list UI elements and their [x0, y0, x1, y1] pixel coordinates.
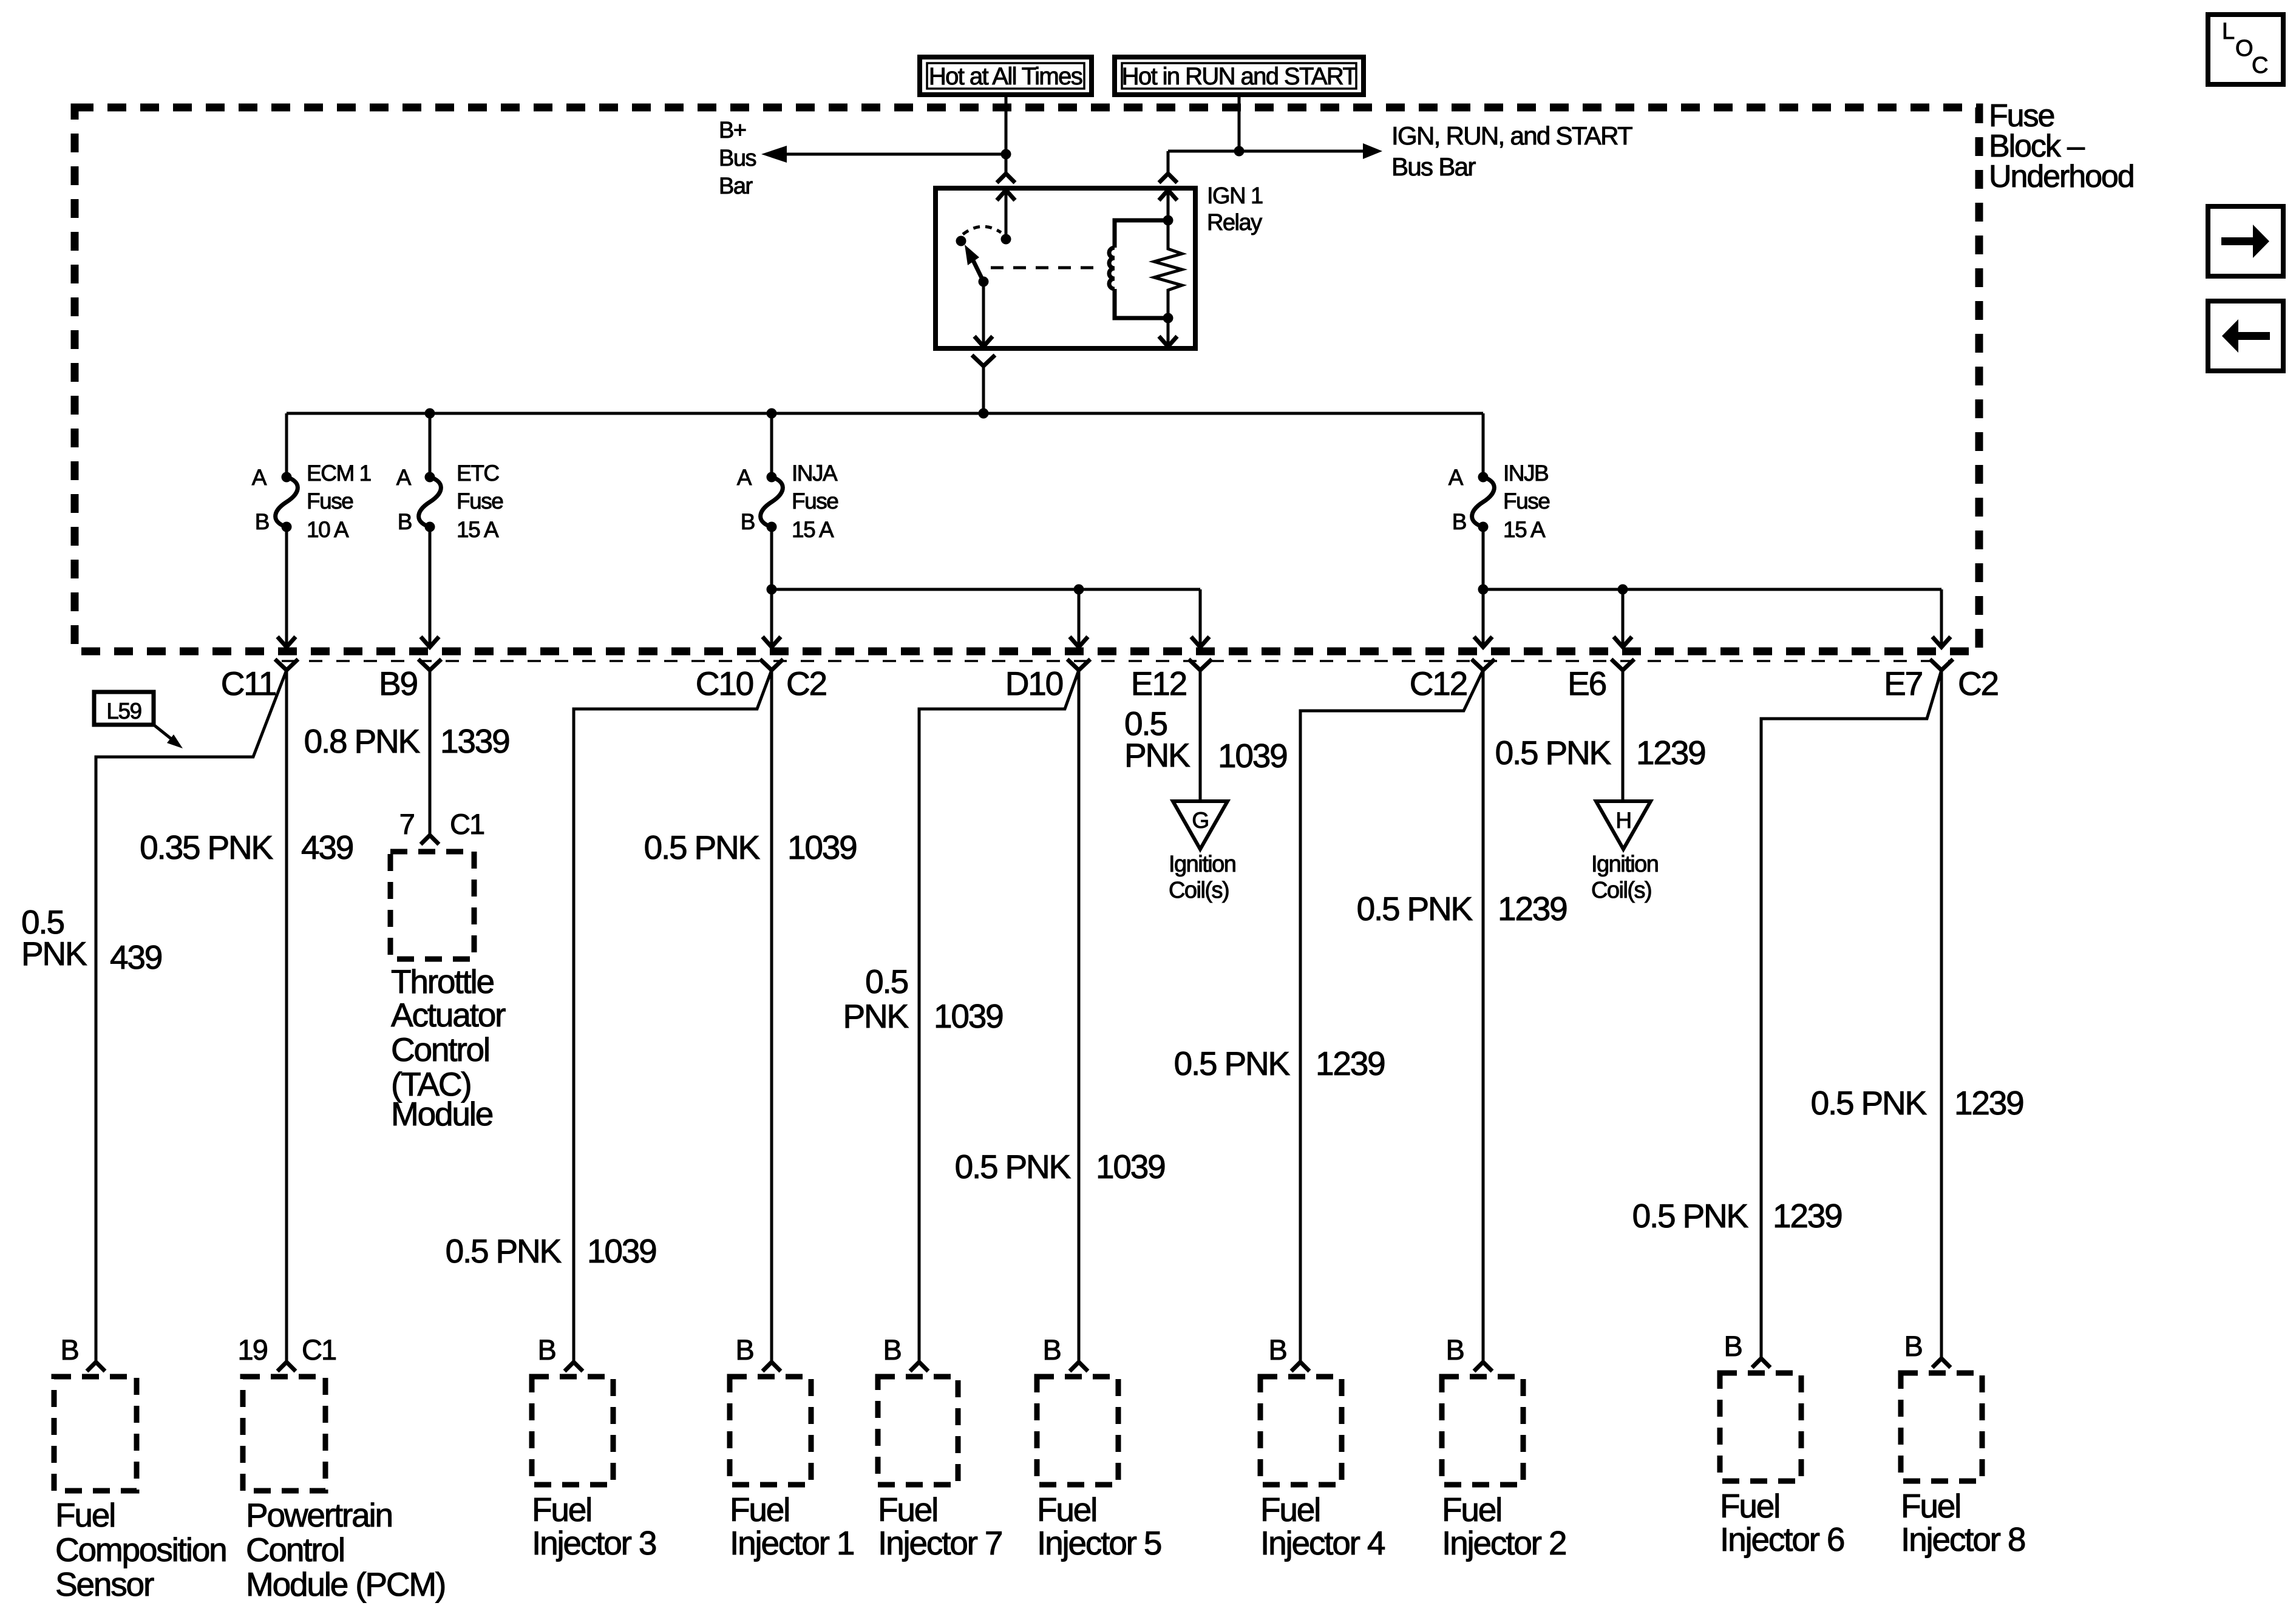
svg-text:B: B [1904, 1330, 1922, 1362]
svg-text:B: B [61, 1334, 78, 1366]
svg-text:0.5 PNK: 0.5 PNK [644, 829, 761, 866]
svg-text:A: A [737, 465, 752, 490]
svg-text:C2: C2 [786, 665, 826, 702]
svg-text:B9: B9 [379, 665, 417, 702]
svg-text:0.5 PNK: 0.5 PNK [446, 1232, 562, 1270]
svg-text:B: B [1446, 1334, 1464, 1366]
svg-text:Fuel: Fuel [1260, 1491, 1320, 1528]
svg-text:B: B [883, 1334, 901, 1366]
svg-text:D10: D10 [1005, 665, 1063, 702]
svg-text:B: B [736, 1334, 753, 1366]
svg-text:B: B [1724, 1330, 1742, 1362]
svg-text:0.5 PNK: 0.5 PNK [1811, 1084, 1927, 1122]
svg-text:B: B [398, 509, 412, 534]
svg-text:Injector 3: Injector 3 [532, 1524, 656, 1562]
svg-text:C1: C1 [450, 808, 484, 840]
svg-text:A: A [396, 465, 412, 490]
svg-text:B: B [255, 509, 269, 534]
svg-text:Fuel: Fuel [1720, 1487, 1779, 1525]
svg-text:Fuel: Fuel [1037, 1491, 1096, 1528]
svg-text:Injector 4: Injector 4 [1260, 1524, 1385, 1562]
svg-text:15 A: 15 A [457, 517, 499, 542]
svg-text:A: A [1449, 465, 1464, 490]
svg-text:19: 19 [237, 1334, 267, 1366]
svg-text:PNK: PNK [21, 935, 87, 972]
svg-text:Control: Control [246, 1531, 344, 1568]
svg-text:Fuse: Fuse [792, 489, 838, 514]
svg-text:Fuel: Fuel [532, 1491, 591, 1528]
svg-text:Fuel: Fuel [1442, 1491, 1501, 1528]
svg-text:C: C [2252, 53, 2267, 78]
svg-text:1239: 1239 [1498, 890, 1567, 927]
svg-text:0.35 PNK: 0.35 PNK [140, 829, 273, 866]
svg-text:Fuel: Fuel [55, 1496, 115, 1534]
svg-text:Injector 8: Injector 8 [1901, 1520, 2025, 1558]
svg-text:B+: B+ [719, 118, 746, 143]
svg-text:INJB: INJB [1503, 461, 1548, 486]
svg-text:Relay: Relay [1207, 210, 1262, 236]
svg-text:B: B [1269, 1334, 1286, 1366]
svg-text:Fuel: Fuel [1901, 1487, 1960, 1525]
svg-text:B: B [1452, 509, 1466, 534]
svg-text:ETC: ETC [457, 461, 499, 486]
svg-text:1239: 1239 [1954, 1084, 2023, 1122]
svg-text:7: 7 [399, 808, 414, 840]
svg-text:Throttle: Throttle [391, 963, 494, 1000]
svg-text:O: O [2235, 36, 2252, 61]
svg-text:Ignition: Ignition [1591, 852, 1658, 877]
svg-text:Fuse: Fuse [457, 489, 503, 514]
svg-text:1239: 1239 [1773, 1197, 1842, 1235]
svg-text:C1: C1 [302, 1334, 336, 1366]
svg-text:C10: C10 [696, 665, 753, 702]
svg-text:IGN, RUN, and START: IGN, RUN, and START [1391, 121, 1632, 150]
svg-text:L: L [2222, 19, 2234, 44]
svg-text:Underhood: Underhood [1989, 159, 2134, 194]
svg-text:Composition: Composition [55, 1531, 226, 1568]
svg-text:Actuator: Actuator [391, 996, 506, 1034]
svg-text:G: G [1192, 808, 1208, 833]
svg-text:1039: 1039 [587, 1232, 656, 1270]
svg-text:H: H [1615, 808, 1631, 833]
svg-text:Fuel: Fuel [730, 1491, 789, 1528]
svg-text:Bus Bar: Bus Bar [1391, 152, 1476, 181]
svg-text:1339: 1339 [440, 722, 509, 760]
svg-text:A: A [252, 465, 267, 490]
svg-text:0.8 PNK: 0.8 PNK [304, 722, 421, 760]
svg-text:Injector 1: Injector 1 [730, 1524, 854, 1562]
svg-text:Bar: Bar [719, 174, 753, 199]
svg-text:0.5 PNK: 0.5 PNK [1632, 1197, 1749, 1235]
svg-text:Fuse: Fuse [307, 489, 353, 514]
svg-text:E12: E12 [1131, 665, 1186, 702]
svg-text:Hot at All Times: Hot at All Times [929, 63, 1082, 90]
svg-text:PNK: PNK [843, 997, 909, 1035]
svg-text:439: 439 [301, 829, 353, 866]
svg-text:Fuel: Fuel [878, 1491, 937, 1528]
svg-text:C12: C12 [1410, 665, 1467, 702]
svg-text:Fuse: Fuse [1503, 489, 1549, 514]
svg-text:1039: 1039 [1218, 737, 1287, 775]
svg-text:0.5 PNK: 0.5 PNK [1495, 734, 1612, 771]
svg-text:Bus: Bus [719, 146, 756, 171]
svg-text:Hot in RUN and START: Hot in RUN and START [1122, 63, 1357, 90]
svg-text:Module: Module [391, 1095, 493, 1133]
svg-text:1039: 1039 [1096, 1148, 1165, 1185]
svg-text:INJA: INJA [792, 461, 838, 486]
svg-text:Sensor: Sensor [55, 1565, 154, 1603]
svg-text:Ignition: Ignition [1169, 852, 1235, 877]
svg-text:Coil(s): Coil(s) [1591, 878, 1651, 903]
svg-text:0.5: 0.5 [865, 963, 908, 1000]
svg-text:Injector 7: Injector 7 [878, 1524, 1002, 1562]
svg-text:ECM 1: ECM 1 [307, 461, 371, 486]
svg-text:15 A: 15 A [1503, 517, 1546, 542]
svg-text:1239: 1239 [1636, 734, 1705, 771]
svg-text:IGN 1: IGN 1 [1207, 183, 1263, 209]
svg-text:B: B [741, 509, 755, 534]
svg-text:Control: Control [391, 1031, 489, 1068]
svg-text:Injector 2: Injector 2 [1442, 1524, 1566, 1562]
svg-text:Injector 5: Injector 5 [1037, 1524, 1161, 1562]
svg-text:Module (PCM): Module (PCM) [246, 1565, 445, 1603]
svg-text:L59: L59 [106, 699, 141, 724]
svg-text:E7: E7 [1884, 665, 1922, 702]
svg-text:B: B [538, 1334, 555, 1366]
svg-text:Coil(s): Coil(s) [1169, 878, 1229, 903]
svg-text:C2: C2 [1958, 665, 1998, 702]
svg-text:C11: C11 [221, 665, 276, 702]
svg-text:439: 439 [110, 938, 161, 976]
svg-text:1039: 1039 [787, 829, 857, 866]
svg-text:10 A: 10 A [307, 517, 349, 542]
svg-text:Injector 6: Injector 6 [1720, 1520, 1844, 1558]
svg-text:1239: 1239 [1316, 1045, 1385, 1082]
svg-text:0.5 PNK: 0.5 PNK [955, 1148, 1072, 1185]
svg-text:E6: E6 [1567, 665, 1606, 702]
svg-text:Powertrain: Powertrain [246, 1496, 392, 1534]
svg-text:B: B [1043, 1334, 1061, 1366]
svg-text:15 A: 15 A [792, 517, 834, 542]
svg-text:0.5 PNK: 0.5 PNK [1357, 890, 1473, 927]
svg-text:1039: 1039 [934, 997, 1003, 1035]
svg-text:0.5 PNK: 0.5 PNK [1174, 1045, 1291, 1082]
svg-text:PNK: PNK [1124, 736, 1190, 774]
